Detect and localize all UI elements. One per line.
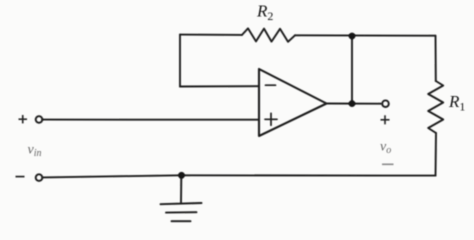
label minus (vo) — [382, 163, 394, 165]
junction: ground node — [178, 172, 185, 179]
wire: inverting input segment — [180, 85, 259, 87]
wire: right vertical upper segment — [435, 36, 437, 81]
wire: feedback left vertical segment — [179, 35, 181, 87]
label plus (vin) — [19, 115, 28, 123]
terminal: vin minus — [36, 174, 43, 181]
resistor R1 — [428, 81, 443, 133]
op-amp U1 — [259, 69, 327, 136]
svg-text:R2: R2 — [256, 2, 273, 24]
wire: bottom return — [43, 175, 436, 177]
terminal: vo — [382, 100, 389, 107]
wire: non-inverting input segment — [43, 119, 259, 121]
ground — [161, 203, 202, 221]
wire: ground stem — [180, 175, 182, 203]
svg-text:vo: vo — [380, 140, 391, 157]
wire: feedback top right segment — [295, 34, 436, 36]
wire: right vertical lower segment — [435, 133, 438, 176]
terminal: vin plus — [36, 116, 43, 123]
wire: feedback top left segment — [180, 34, 242, 36]
label plus (vo) — [381, 115, 390, 124]
svg-text:vin: vin — [28, 143, 42, 160]
junction: feedback node — [349, 33, 356, 40]
label minus (vin) — [16, 176, 25, 178]
resistor R2 — [242, 28, 295, 41]
wire: output feedback vertical — [351, 36, 353, 104]
wire: output segment — [327, 103, 382, 105]
junction: output node — [349, 100, 356, 107]
svg-text:R1: R1 — [448, 92, 465, 114]
